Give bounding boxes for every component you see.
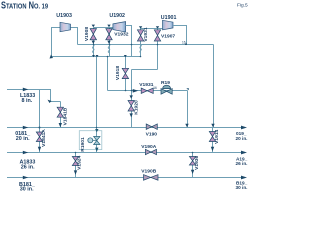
flow arrow L1833	[23, 88, 28, 92]
node junction at header left corner	[50, 55, 54, 59]
node junction dots	[75, 44, 194, 154]
valve V190	[146, 124, 158, 138]
flow arrow 0181	[23, 126, 28, 130]
node junction double tick at inlet header	[92, 55, 95, 57]
svg-text:20 in.: 20 in.	[16, 136, 30, 142]
svg-text:V1907: V1907	[161, 33, 175, 39]
valve V1841A column	[36, 90, 47, 153]
wire B181/B19 pipe	[7, 177, 243, 179]
valve V190A	[141, 144, 156, 155]
wire header drop to 019	[213, 45, 215, 128]
flow arrow on R19 line	[133, 89, 139, 93]
wire R19 line	[108, 90, 188, 92]
svg-text:V190: V190	[146, 132, 158, 138]
svg-text:30 in.: 30 in.	[236, 185, 248, 190]
wire branch y69.7	[132, 69, 158, 71]
svg-text:26 in.: 26 in.	[236, 161, 248, 166]
valve V1918 column	[115, 57, 128, 91]
svg-text:U1903: U1903	[56, 13, 72, 19]
valve V1936 column	[189, 153, 200, 178]
regulator valve R19	[161, 80, 172, 94]
regulator R1901 enclosure box	[79, 131, 102, 150]
regulator U1901	[161, 15, 177, 30]
exit arrow B19	[241, 176, 247, 180]
valve V1932 column	[106, 25, 129, 57]
svg-text:V1936: V1936	[194, 155, 200, 169]
svg-text:20 in.: 20 in.	[236, 136, 248, 141]
wire top line V1931-V1907-U1901	[141, 28, 163, 30]
regulator valve R1901 column	[80, 128, 100, 153]
svg-text:V1931: V1931	[143, 27, 149, 41]
svg-text:K1920: K1920	[133, 100, 139, 115]
svg-text:V1924: V1924	[77, 155, 83, 169]
wire top line V1908-V1932-U1902	[94, 27, 114, 29]
wire outlet header y44	[78, 44, 214, 46]
valve K1920 column	[128, 70, 139, 128]
wire 0181/019 pipe	[7, 127, 243, 129]
wire A1833/A19 pipe	[7, 152, 243, 154]
valve V1931 upper column	[137, 26, 148, 56]
svg-text:26 in.: 26 in.	[21, 164, 35, 170]
svg-text:V1841A: V1841A	[41, 129, 47, 147]
wire V1841B feed junction tick	[124, 55, 127, 57]
wire U1902 outlet drop	[126, 26, 132, 57]
valve V1931 mid bowtie	[139, 82, 153, 93]
svg-text:V1931: V1931	[139, 82, 153, 88]
svg-text:V1841B: V1841B	[62, 107, 68, 125]
valve V1914 column	[209, 128, 220, 153]
regulator U1902	[109, 13, 125, 32]
node tick at R19 corner	[186, 88, 189, 90]
wire L1833 pipe	[7, 90, 61, 102]
valve V1907 column	[154, 26, 175, 69]
svg-text:V1908: V1908	[84, 27, 90, 41]
wire R19 drop to 019	[187, 91, 189, 128]
svg-text:30 in.: 30 in.	[20, 186, 34, 192]
svg-text:V1918: V1918	[115, 66, 121, 80]
svg-text:R1901: R1901	[80, 137, 86, 152]
exit arrow 019	[241, 126, 247, 130]
svg-text:U1902: U1902	[109, 13, 125, 19]
svg-text:V1914: V1914	[214, 129, 220, 143]
title STATION NO. 19	[1, 0, 48, 11]
wire U1903 outlet drop	[71, 28, 78, 45]
svg-text:R19: R19	[161, 80, 170, 86]
valve V1924 column	[72, 153, 82, 178]
wire U1903 inlet riser	[52, 28, 61, 57]
svg-text:V190B: V190B	[141, 168, 156, 174]
regulator U1903	[56, 13, 72, 32]
valve V190B	[141, 168, 158, 180]
flow arrow A1833	[23, 151, 28, 155]
svg-text:U1901: U1901	[161, 15, 177, 21]
valve V1841B column	[57, 102, 68, 128]
svg-text:Fig.5: Fig.5	[237, 3, 248, 9]
svg-text:16: 16	[153, 86, 157, 90]
svg-text:8 in.: 8 in.	[22, 98, 33, 104]
svg-text:V1932: V1932	[114, 32, 128, 38]
wire R19 branch riser	[107, 57, 109, 91]
wire inlet header y57	[52, 56, 142, 58]
svg-text:V190A: V190A	[141, 144, 156, 150]
node L1833 corner junction	[48, 100, 52, 103]
wire R1901 feed riser	[96, 57, 98, 128]
valve V1908 column	[84, 25, 97, 57]
node tick at 019 join	[211, 124, 214, 127]
exit arrow A19	[241, 151, 247, 155]
wire U1901 outlet drop	[173, 26, 187, 45]
flow arrow B181	[23, 176, 28, 180]
